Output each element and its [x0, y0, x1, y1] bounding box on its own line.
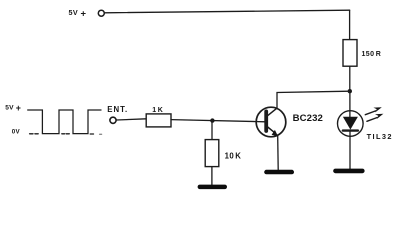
resistor 150R	[343, 40, 357, 67]
node A (junction dot)	[348, 89, 352, 93]
label 1K	[152, 107, 163, 114]
svg-text:0V: 0V	[12, 128, 21, 135]
resistor 1K	[146, 114, 171, 127]
svg-text:5V: 5V	[69, 8, 79, 17]
label TIL32	[367, 132, 393, 141]
resistor 10K	[205, 140, 219, 167]
waveform annotation label 5V	[5, 103, 21, 113]
svg-text:BC232: BC232	[293, 113, 323, 124]
ground (under Q1 emitter)	[264, 170, 294, 175]
wire node A down to LED D1	[349, 91, 351, 117]
svg-text:150R: 150R	[362, 51, 382, 58]
wire right vertical down to R 150R	[349, 10, 351, 39]
svg-text:5V: 5V	[5, 105, 14, 112]
wire Q1 emitter to ground	[277, 136, 280, 170]
ground (under LED)	[333, 169, 364, 174]
wire R 1K to node B to Q1 base	[171, 120, 266, 122]
label 10K	[225, 152, 242, 161]
wire LED cathode to ground	[349, 131, 351, 169]
svg-text:10K: 10K	[225, 152, 242, 161]
svg-text:ENT.: ENT.	[107, 105, 128, 114]
wire top rail from 5V terminal to right	[105, 10, 350, 13]
svg-text:TIL32: TIL32	[367, 132, 393, 141]
waveform square wave trace	[28, 110, 101, 134]
ground (under R 10K)	[198, 185, 227, 190]
wire R 10K to ground	[211, 167, 213, 185]
wire node B down to R 10K	[211, 121, 213, 140]
terminal 5V+ (open circle)	[98, 10, 104, 16]
LED light emission arrow 2	[367, 114, 384, 122]
LED light emission arrow 1	[365, 107, 382, 115]
svg-text:1K: 1K	[152, 107, 163, 114]
LED D1 TIL32	[338, 111, 364, 137]
wire collector rail from Q1 to node A	[277, 91, 350, 108]
wire from 150R down to node A	[349, 66, 351, 91]
terminal ENT. (open circle)	[110, 117, 116, 123]
label 150R	[362, 51, 382, 58]
svg-text:+: +	[16, 103, 21, 113]
label ENT.	[107, 105, 128, 114]
waveform 0V dashed reference line	[30, 133, 102, 136]
node B (junction dot)	[210, 118, 214, 122]
label BC232	[293, 113, 323, 124]
label 5V+ supply	[69, 8, 87, 19]
transistor Q1 BC232	[256, 107, 286, 137]
svg-text:+: +	[81, 8, 87, 19]
wire ENT terminal to R 1K	[117, 119, 147, 120]
waveform annotation label 0V	[12, 128, 21, 135]
